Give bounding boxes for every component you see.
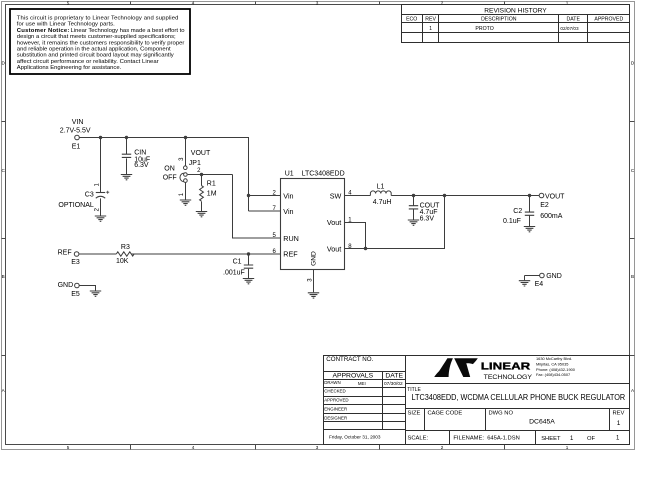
svg-text:substitution and printed circu: substitution and printed circuit board l… xyxy=(17,53,174,59)
svg-text:REV: REV xyxy=(425,16,436,22)
svg-text:VOUT: VOUT xyxy=(191,150,211,157)
svg-text:6.3V: 6.3V xyxy=(420,215,435,222)
svg-text:C: C xyxy=(2,168,6,173)
svg-text:ECO: ECO xyxy=(406,16,417,22)
svg-text:Vout: Vout xyxy=(327,245,341,254)
svg-text:DWG NO: DWG NO xyxy=(489,411,514,417)
svg-text:LTC3408EDD, WCDMA CELLULAR PHO: LTC3408EDD, WCDMA CELLULAR PHONE BUCK RE… xyxy=(412,393,626,402)
svg-text:ON: ON xyxy=(164,165,175,172)
svg-text:Milpitas, CA 95035: Milpitas, CA 95035 xyxy=(536,362,568,367)
svg-text:APPROVALS: APPROVALS xyxy=(332,373,373,380)
svg-text:Applications Engineering for a: Applications Engineering for assistance. xyxy=(17,65,122,71)
svg-text:3: 3 xyxy=(307,278,313,282)
svg-text:1: 1 xyxy=(429,26,432,32)
svg-text:CHECKED: CHECKED xyxy=(324,389,345,394)
svg-text:REV: REV xyxy=(613,411,625,417)
svg-text:REVISION HISTORY: REVISION HISTORY xyxy=(484,7,547,14)
svg-text:APPROVED: APPROVED xyxy=(594,16,623,22)
svg-text:1: 1 xyxy=(566,445,569,450)
svg-text:E5: E5 xyxy=(71,291,80,298)
svg-text:SW: SW xyxy=(330,192,342,201)
svg-text:3: 3 xyxy=(179,157,185,161)
svg-text:for use with Linear Technology: for use with Linear Technology parts. xyxy=(17,22,115,28)
svg-text:C1: C1 xyxy=(233,259,242,266)
svg-text:10K: 10K xyxy=(116,258,129,265)
svg-text:4: 4 xyxy=(192,0,195,5)
svg-text:1: 1 xyxy=(570,436,574,442)
svg-text:GND: GND xyxy=(58,282,74,289)
svg-text:GND: GND xyxy=(546,273,562,280)
svg-text:VOUT: VOUT xyxy=(545,193,565,200)
svg-text:E4: E4 xyxy=(535,281,544,288)
svg-text:2.7V-5.5V: 2.7V-5.5V xyxy=(60,127,91,134)
svg-text:Linear Technology has made a b: Linear Technology has made a best effort… xyxy=(71,28,186,34)
svg-text:SHEET: SHEET xyxy=(541,436,561,442)
svg-text:REF: REF xyxy=(58,249,72,256)
svg-text:JP1: JP1 xyxy=(189,160,201,167)
svg-text:PROTO: PROTO xyxy=(475,26,493,32)
svg-text:600mA: 600mA xyxy=(540,213,563,220)
svg-text:0.1uF: 0.1uF xyxy=(503,218,521,225)
svg-text:Vin: Vin xyxy=(283,192,293,201)
svg-text:L1: L1 xyxy=(377,183,385,190)
svg-text:3: 3 xyxy=(316,445,319,450)
svg-text:4: 4 xyxy=(192,445,195,450)
svg-text:VIN: VIN xyxy=(72,119,84,126)
svg-text:OFF: OFF xyxy=(163,175,177,182)
svg-text:U1: U1 xyxy=(285,170,294,177)
svg-text:however, it remains the custom: however, it remains the customers respon… xyxy=(17,40,185,46)
svg-text:RUN: RUN xyxy=(283,234,299,243)
svg-text:E2: E2 xyxy=(540,202,549,209)
svg-text:ENGINEER: ENGINEER xyxy=(324,407,347,412)
svg-text:DATE: DATE xyxy=(385,373,403,380)
svg-text:.001uF: .001uF xyxy=(223,270,245,277)
svg-text:R1: R1 xyxy=(207,181,216,188)
svg-text:CAGE CODE: CAGE CODE xyxy=(428,411,463,417)
svg-text:02/07/03: 02/07/03 xyxy=(560,26,579,31)
svg-text:1: 1 xyxy=(617,420,621,427)
svg-text:C2: C2 xyxy=(513,208,522,215)
svg-text:OF: OF xyxy=(587,436,596,442)
svg-text:FILENAME: 645A-1.DSN: FILENAME: 645A-1.DSN xyxy=(453,436,519,442)
svg-text:and reliable operation in the: and reliable operation in the actual app… xyxy=(17,46,171,52)
svg-text:DATE: DATE xyxy=(566,16,580,22)
svg-text:1: 1 xyxy=(94,183,100,187)
svg-text:DRAWN: DRAWN xyxy=(324,380,340,385)
svg-text:C3: C3 xyxy=(85,191,94,198)
svg-text:07/30/02: 07/30/02 xyxy=(384,381,403,387)
svg-text:LINEAR: LINEAR xyxy=(481,360,531,372)
svg-text:DESCRIPTION: DESCRIPTION xyxy=(481,16,517,22)
svg-text:2: 2 xyxy=(94,207,100,211)
svg-text:B: B xyxy=(2,274,5,279)
svg-text:Vout: Vout xyxy=(327,218,341,227)
svg-text:Customer Notice:: Customer Notice: xyxy=(17,28,70,34)
svg-text:DESIGNER: DESIGNER xyxy=(324,415,347,420)
svg-text:B: B xyxy=(631,274,634,279)
svg-text:This circuit is proprietary to: This circuit is proprietary to Linear Te… xyxy=(17,16,179,22)
svg-text:LTC3408EDD: LTC3408EDD xyxy=(302,170,345,177)
svg-text:6.3V: 6.3V xyxy=(134,162,149,169)
svg-text:E1: E1 xyxy=(72,143,81,150)
svg-text:Vin: Vin xyxy=(283,207,293,216)
svg-text:APPROVED: APPROVED xyxy=(324,398,348,403)
svg-text:E3: E3 xyxy=(71,259,80,266)
svg-text:D: D xyxy=(2,61,6,66)
svg-text:Phone: (408)432-1900: Phone: (408)432-1900 xyxy=(536,367,576,372)
svg-text:5: 5 xyxy=(67,0,70,5)
svg-text:3: 3 xyxy=(316,0,319,5)
svg-text:Friday, October 31, 2003: Friday, October 31, 2003 xyxy=(329,435,381,440)
svg-text:SCALE:: SCALE: xyxy=(408,436,429,442)
svg-text:DC645A: DC645A xyxy=(529,419,555,426)
svg-text:CONTRACT NO.: CONTRACT NO. xyxy=(326,356,373,363)
svg-text:1630 McCarthy Blvd.: 1630 McCarthy Blvd. xyxy=(536,356,572,361)
svg-text:1: 1 xyxy=(616,436,620,442)
svg-text:TECHNOLOGY: TECHNOLOGY xyxy=(484,374,533,381)
svg-text:1: 1 xyxy=(179,192,185,196)
svg-text:REF: REF xyxy=(283,250,298,259)
svg-text:SIZE: SIZE xyxy=(408,411,421,417)
svg-text:5: 5 xyxy=(67,445,70,450)
svg-text:4.7uH: 4.7uH xyxy=(373,199,392,206)
svg-text:1M: 1M xyxy=(207,191,217,198)
svg-text:MEI: MEI xyxy=(358,381,366,386)
svg-text:design a circuit that meets cu: design a circuit that meets customer-sup… xyxy=(17,34,176,40)
svg-text:2: 2 xyxy=(441,445,444,450)
svg-text:GND: GND xyxy=(311,251,318,266)
svg-text:affect circuit performance or: affect circuit performance or reliabilit… xyxy=(17,59,159,65)
svg-text:Fax: (408)434-0507: Fax: (408)434-0507 xyxy=(536,372,570,377)
svg-text:R3: R3 xyxy=(121,244,130,251)
svg-text:OPTIONAL: OPTIONAL xyxy=(58,202,94,209)
